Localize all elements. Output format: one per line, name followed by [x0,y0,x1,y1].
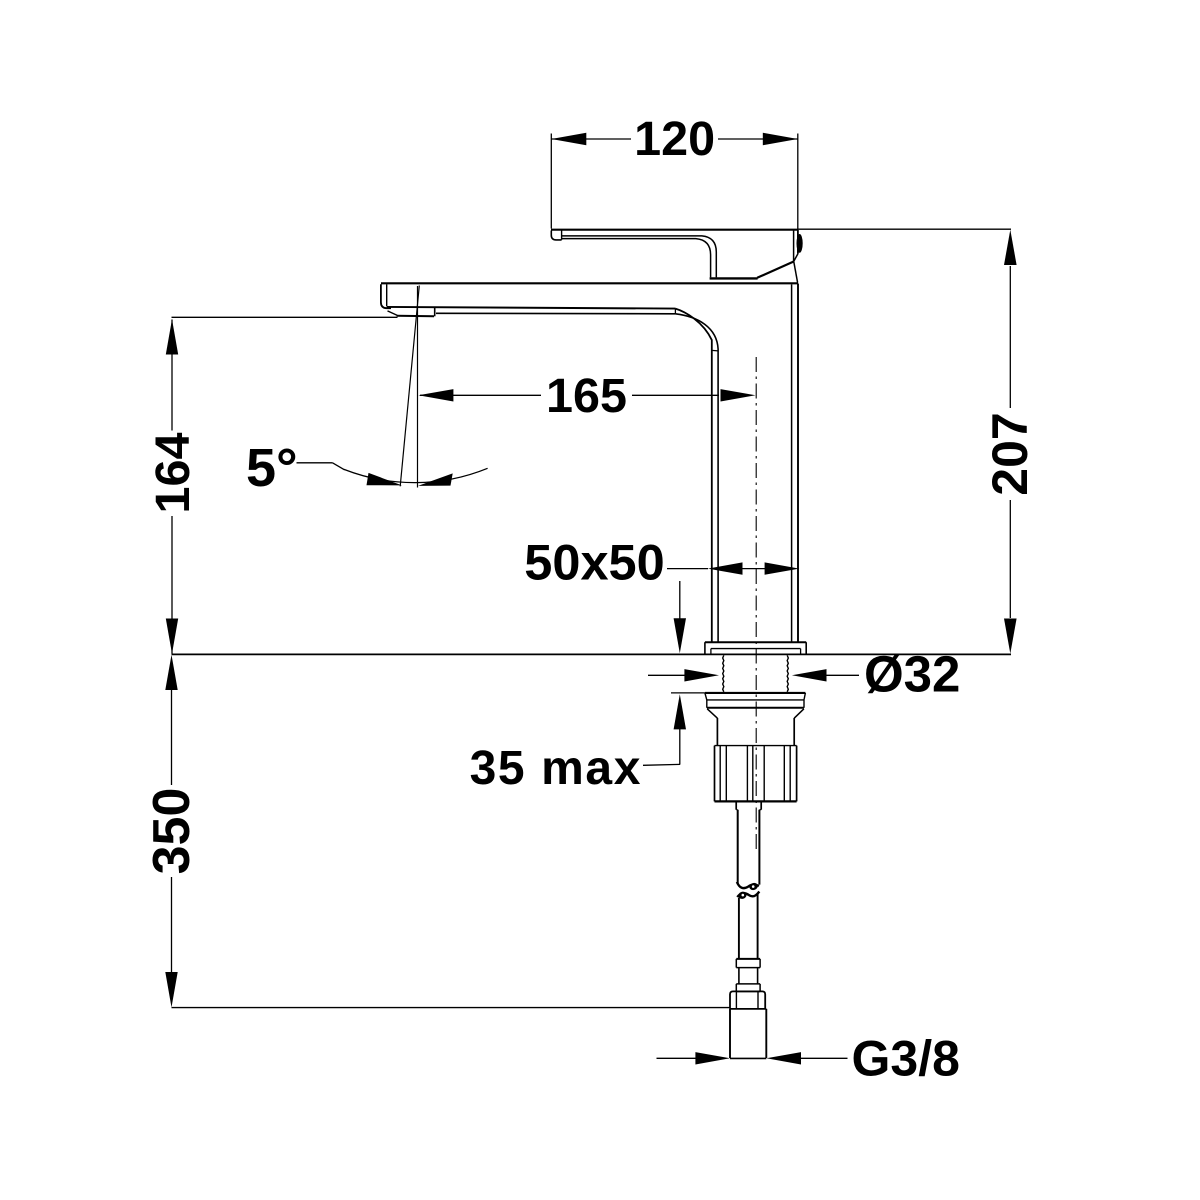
cone right slant [794,709,804,718]
dim 5deg arc [344,468,488,482]
body top line [381,282,798,284]
hose lower right edge [757,894,759,959]
break lower loop hole [742,894,745,897]
dim 35max leader [643,763,680,766]
lever inner lower line with front outer curve [562,239,711,278]
elbow inner curve into column left inner line [675,314,718,642]
5-degree vertical reference line [417,286,419,488]
svg-text:35 max: 35 max [470,742,642,795]
svg-text:164: 164 [146,433,200,514]
rib line b [725,746,727,802]
lever right outer vertical [797,230,799,254]
5-degree slant line [400,286,419,487]
dim 350 line lower segment [171,877,173,973]
lever left end face tick [561,230,563,240]
rib line g [789,746,791,802]
dim diam32 arrow right [792,669,827,681]
spout bottom second line [436,312,675,315]
rib line c [746,746,748,802]
stub left [735,802,737,810]
dim 35max upper line [679,581,681,619]
dim 207 arrow down [1004,619,1017,654]
dim 207 line lower segment [1009,500,1011,618]
break upper loop blob [748,882,758,892]
break lower loop blob [737,891,747,901]
elbow tick upper tangent [674,309,676,314]
dim G38 line left [657,1057,701,1059]
nut body left [716,718,718,746]
ring2 right edge [803,700,805,708]
svg-text:5°: 5° [246,438,298,498]
dim G38 arrow left [695,1052,730,1064]
base flange mid line [711,648,801,650]
dim 350 arrow down [165,972,177,1007]
dim 120 line right segment [718,138,798,140]
dim 164 extension top [172,316,398,318]
washer right edge [804,693,805,700]
rib line d [752,746,754,802]
elbow outer curve into column left outer line [675,309,711,643]
base flange top [705,641,806,643]
ribs top line [715,745,797,747]
fitting ring2 left [735,984,737,992]
svg-text:120: 120 [634,112,715,166]
hose lower left edge [738,898,740,959]
dim 165 arrow left [418,389,453,401]
hose upper right edge [758,810,760,885]
base flange inner left edge [710,649,712,654]
dim 50x50 arrow right [765,562,800,574]
rib line e [763,746,765,802]
column right inner line [791,285,793,643]
shank thread right [787,655,788,691]
fitting ring1 right [759,959,761,968]
aerator slant left [388,311,398,316]
rib line f [783,746,785,802]
dim 350 line upper segment [171,688,173,785]
dim 207 line upper segment [1009,266,1011,408]
connector bottom edge [730,1057,766,1059]
dim diam32 arrow left [684,669,719,681]
dim 350 arrow up [165,655,177,690]
dim 5deg arrow right [418,473,453,486]
washer extension line (35 max lower reference) [671,692,705,694]
hex nut facet left [735,991,737,1009]
svg-text:350: 350 [143,788,201,875]
elbow tick lower tangent [712,349,718,352]
dim 165 line right segment [632,394,719,396]
rib line a [719,746,721,802]
ribs bottom thick line [715,800,797,802]
washer top thick line [705,692,806,694]
ring2 bottom thick line [707,707,804,709]
dim 120 extension left [550,134,552,229]
dim 5deg arrow left [367,473,403,486]
dim 5deg leader slant [333,463,345,470]
svg-text:50x50: 50x50 [524,534,664,591]
column right outer line [797,284,799,643]
fitting ring2 top [736,983,760,985]
dim 164 line lower segment [171,516,173,654]
lever button dark blob [797,234,803,253]
hex nut facet right [757,991,759,1009]
spout left edge with rounded bottom corner [381,284,391,308]
lever inner upper line with front inner curve [562,236,717,278]
fitting ring2 right [759,984,761,992]
lever right chamfer [794,254,798,262]
connector left edge [729,1009,731,1058]
break lower curve [737,892,759,898]
rib left outer edge [714,746,716,802]
svg-text:G3/8: G3/8 [852,1031,960,1087]
deck line [172,653,1012,655]
dim G38 line right [800,1057,848,1059]
stub step left [736,809,738,811]
nut body right [793,718,795,746]
hex nut outline [730,991,765,1009]
dim 5deg leader horizontal [297,462,333,464]
aerator bottom [397,315,434,318]
dim 350 extension bottom [172,1007,731,1009]
connector right edge [765,1009,767,1058]
aerator right tick [434,308,436,317]
spout left end face tick [386,284,388,306]
fitting mid right [757,968,759,984]
base flange left edge [704,642,706,654]
dim 35max lower line [679,729,681,765]
lever to body connecting line [794,262,798,283]
svg-text:Ø32: Ø32 [864,646,960,703]
svg-text:207: 207 [982,412,1038,495]
dim diam32 line left [648,674,687,676]
base flange inner right edge [800,649,802,654]
lever right inner vertical [793,230,795,262]
dim 207 arrow up [1004,230,1017,265]
extension line 207 top (lever top extended right) [798,228,1011,230]
fitting ring1 left [735,959,737,968]
lever bottom front thick line [710,277,758,279]
stub step right [759,809,761,811]
fitting mid left [738,968,740,984]
dim 165 line left segment [420,394,541,396]
dim 120 line left segment [551,138,631,140]
centerline dash-dot [755,357,757,850]
stub right [760,802,762,810]
svg-text:165: 165 [546,369,627,423]
dim G38 arrow right [766,1052,801,1064]
break upper loop hole [752,885,755,888]
dim 120 arrow left [551,133,586,145]
dim 120 arrow right [763,133,798,145]
lever left end cap [551,231,561,240]
dim 50x50 arrow left [708,562,743,574]
dim 35max arrow down [674,618,686,653]
hose upper left edge [737,810,739,884]
cone left slant [707,709,717,718]
break upper curve [737,882,759,888]
washer bottom line [707,699,804,701]
dim 35max arrow up [674,694,686,729]
base flange right edge [805,642,807,654]
ring2 left edge [706,700,708,708]
dim 165 arrow right [721,389,756,401]
fitting ring2 bottom [736,990,760,992]
dim diam32 line right [826,674,859,676]
fitting ring1 top [736,958,760,960]
dim 164 line upper segment [171,320,173,431]
dim 164 arrow down [166,619,178,654]
washer left edge [705,693,707,700]
hex nut bottom / connector top [730,1008,766,1010]
spout bottom line [387,307,676,309]
dim 164 arrow up [166,319,178,354]
dim 120 extension right [797,134,799,230]
dim 50x50 mid segment [740,568,770,570]
lever back diagonal [757,262,794,278]
rib right outer edge [796,746,798,802]
lever top line [551,229,798,231]
dim 50x50 leader [667,568,708,570]
fitting ring1 bottom [736,967,760,969]
shank thread left [723,655,724,691]
